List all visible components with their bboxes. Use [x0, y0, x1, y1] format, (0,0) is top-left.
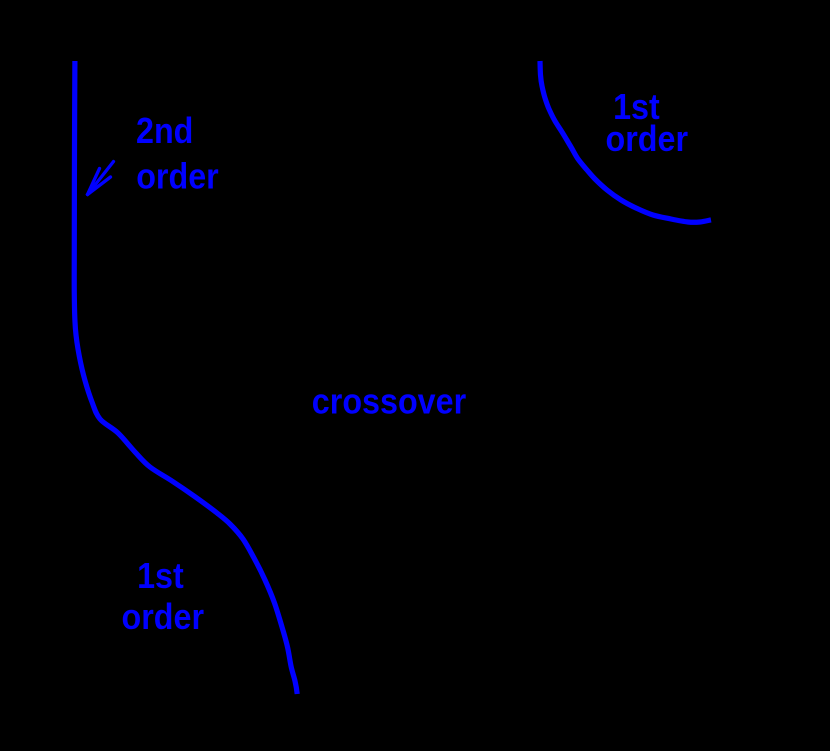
svg-text:order: order	[606, 119, 689, 159]
svg-text:2nd: 2nd	[136, 112, 193, 152]
svg-text:order: order	[122, 598, 205, 638]
svg-text:order: order	[136, 157, 219, 197]
svg-text:1st: 1st	[137, 557, 184, 597]
arrow pointing at 2nd-order line	[88, 162, 114, 195]
phase boundary curve: 2nd-order line continuing into 1st-order S-curve (left)	[74, 61, 297, 694]
svg-text:crossover: crossover	[312, 382, 466, 422]
1st-order boundary curve (top right)	[540, 61, 711, 222]
